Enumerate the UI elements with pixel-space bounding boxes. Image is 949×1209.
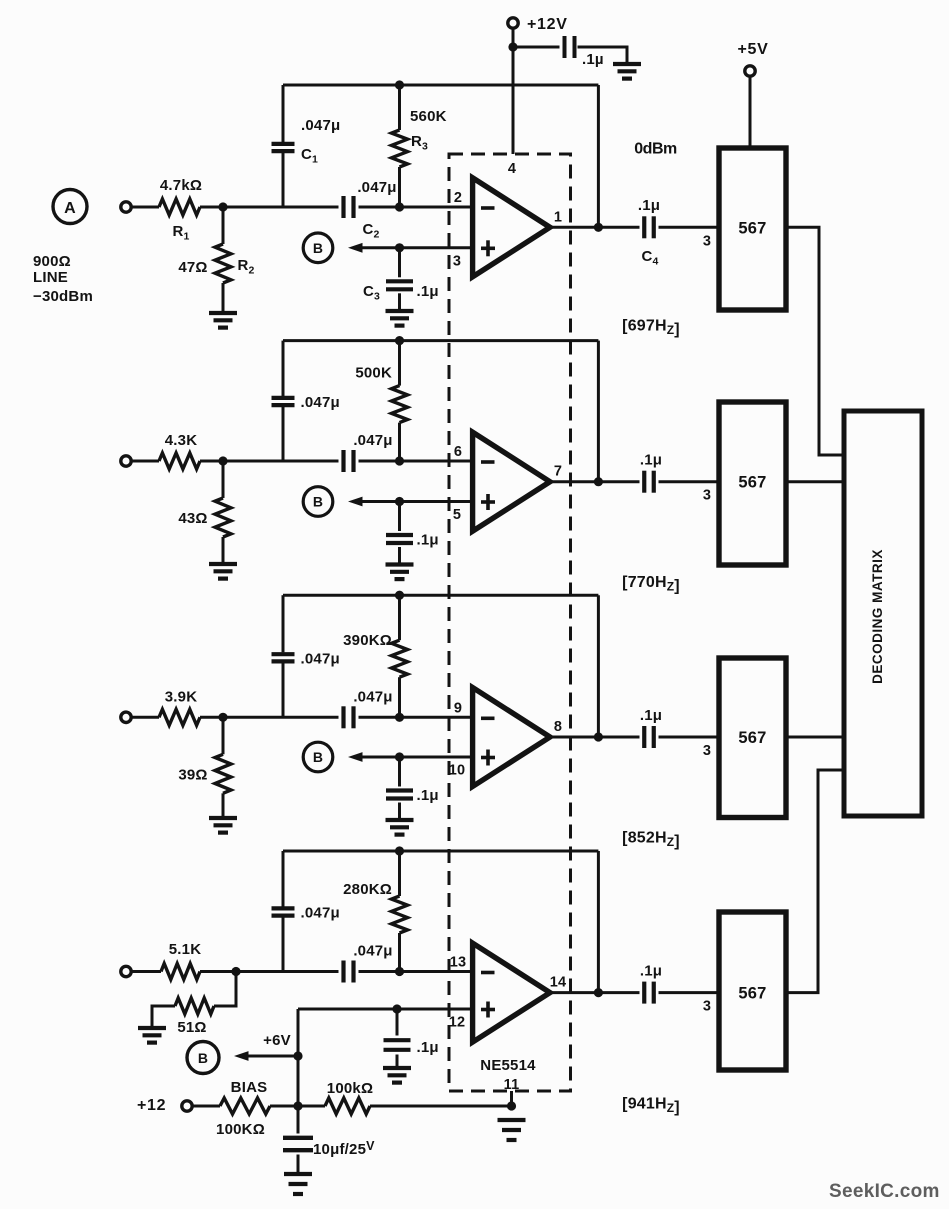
wire +6V rail vertical [297, 1009, 300, 1106]
svg-text:390KΩ: 390KΩ [343, 632, 392, 649]
svg-text:51Ω: 51Ω [177, 1019, 206, 1036]
wire U3 output to decoding matrix [786, 480, 842, 483]
svg-text:+12: +12 [137, 1097, 166, 1114]
pin 3 label U3 [703, 488, 711, 504]
node input junction channel 1 [218, 202, 227, 211]
svg-text:.1μ: .1μ [417, 532, 439, 549]
svg-text:SeekIC.com: SeekIC.com [829, 1181, 940, 1202]
svg-text:.1µ: .1µ [582, 51, 604, 68]
node B marker channel 2 [303, 487, 333, 517]
tone decoder U3 567 channel 2 [719, 402, 786, 565]
svg-text:B: B [313, 240, 323, 256]
resistor 43ohm shunt channel 2 [178, 461, 231, 564]
wire feedback top channel 3 [283, 594, 598, 597]
svg-text:13: 13 [450, 955, 467, 971]
capacitor .047µ feedback channel 2 [272, 341, 340, 461]
resistor 100kΩ bias feed [325, 1080, 373, 1114]
svg-text:.1μ: .1μ [417, 283, 439, 300]
capacitor .047µ series channel 2 [344, 432, 393, 472]
node A line input marker [53, 190, 87, 224]
svg-text:4.7kΩ: 4.7kΩ [160, 177, 202, 194]
capacitor .047µ feedback channel 4 [272, 851, 340, 972]
node feedback resistor top junction channel 4 [395, 846, 404, 855]
svg-text:567: 567 [738, 219, 766, 237]
pin 11 label [504, 1077, 520, 1093]
ground +12V bypass [613, 64, 641, 79]
svg-text:3: 3 [703, 233, 711, 249]
svg-text:567: 567 [738, 729, 766, 747]
wire arrow to node B channel 2 [348, 497, 473, 507]
wire op-amp output channel 1 [550, 226, 719, 229]
label [770Hz] frequency channel 2 [622, 574, 680, 595]
wire U4 output to decoding matrix [786, 736, 842, 739]
svg-text:.047μ: .047μ [301, 650, 340, 667]
wire +5V to tone decoder U2 [749, 76, 752, 147]
svg-text:3: 3 [453, 253, 461, 269]
power +5V terminal [737, 41, 768, 76]
svg-text:567: 567 [738, 985, 766, 1003]
pin 3 label [453, 253, 461, 269]
label [941Hz] frequency channel 4 [622, 1096, 680, 1117]
svg-text:.1μ: .1μ [417, 787, 439, 804]
wire input terminal to R channel 1 [132, 206, 160, 209]
node B marker channel 3 [303, 742, 333, 772]
label [697Hz] frequency channel 1 [622, 318, 680, 339]
wire op-amp output channel 2 [550, 480, 719, 483]
capacitor .1µ bias bypass channel 4 [384, 1009, 439, 1068]
ground bypass capacitor channel 1 [386, 311, 414, 326]
wire U2 output to decoding matrix [786, 227, 842, 455]
wire bias resistor to divider node [270, 1105, 325, 1108]
wire +6V bias to op-amp non-inverting input channel 4 [298, 1008, 473, 1011]
node shunt capacitor junction channel 2 [395, 497, 404, 506]
wire +12 terminal to bias resistor [193, 1105, 221, 1108]
node input junction channel 2 [218, 456, 227, 465]
svg-text:.047μ: .047μ [353, 688, 392, 705]
wire op-amp output channel 3 [550, 736, 719, 739]
pin 6 label [454, 444, 462, 460]
node output junction channel 4 [594, 988, 603, 997]
label [852Hz] frequency channel 3 [622, 830, 680, 851]
resistor 4.3K input channel 2 [159, 432, 200, 469]
svg-text:560K: 560K [410, 108, 447, 125]
wire R to op-amp inverting input channel 4 [200, 970, 473, 973]
svg-text:14: 14 [550, 975, 567, 991]
power +12V terminal [508, 16, 568, 33]
wire feedback top channel 2 [283, 339, 598, 342]
svg-text:9: 9 [454, 700, 462, 716]
node B marker channel 4 [187, 1042, 219, 1074]
ground input shunt channel 2 [209, 564, 237, 579]
pin 3 label U4 [703, 743, 711, 759]
svg-text:5.1K: 5.1K [169, 941, 202, 958]
svg-text:.1μ: .1μ [640, 707, 662, 724]
svg-text:47Ω: 47Ω [178, 259, 207, 276]
resistor 51 ohm channel 4 [175, 998, 214, 1036]
op-amp U1a NE5514 section 1 [473, 178, 550, 277]
svg-text:.047μ: .047μ [357, 179, 396, 196]
node feedback resistor bottom junction channel 2 [395, 456, 404, 465]
svg-text:.047μ: .047μ [301, 117, 340, 134]
ground pin 11 [498, 1120, 526, 1140]
svg-text:−30dBm: −30dBm [33, 288, 93, 305]
svg-text:.1μ: .1μ [640, 963, 662, 980]
pin 5 label [453, 507, 461, 523]
op-amp U1b NE5514 section 2 [473, 432, 550, 531]
svg-text:3: 3 [703, 743, 711, 759]
pin 12 label [449, 1015, 466, 1031]
pin 3 label U2 [703, 233, 711, 249]
pin 3 label U5 [703, 999, 711, 1015]
svg-text:.047μ: .047μ [353, 432, 392, 449]
svg-text:567: 567 [738, 474, 766, 492]
pin 8 label [554, 719, 562, 735]
resistor 5.1K input channel 4 [161, 941, 201, 980]
svg-text:0dBm: 0dBm [634, 141, 677, 158]
capacitor .1µ +12V bypass [565, 36, 604, 68]
wire junction down to 51 ohm resistor [214, 972, 236, 1007]
input terminal channel 4 [121, 966, 131, 976]
ground bypass capacitor channel 2 [386, 565, 414, 580]
wire +12V junction to bypass capacitor [513, 46, 560, 49]
svg-text:100kΩ: 100kΩ [327, 1080, 373, 1097]
svg-text:2: 2 [454, 190, 462, 206]
bias input terminal [182, 1101, 192, 1111]
svg-text:8: 8 [554, 719, 562, 735]
svg-text:11: 11 [504, 1077, 520, 1093]
capacitor .1µ output coupling channel 3 [640, 707, 662, 748]
input terminal channel 2 [121, 456, 131, 466]
node feedback resistor bottom junction channel 1 [395, 202, 404, 211]
node feedback resistor top junction channel 2 [395, 336, 404, 345]
ground input shunt channel 3 [209, 818, 237, 833]
capacitor .1µ non-inverting bypass channel 3 [386, 757, 439, 820]
svg-text:.047μ: .047μ [353, 943, 392, 960]
node feedback resistor top junction channel 1 [395, 80, 404, 89]
pin 9 label [454, 700, 462, 716]
capacitor 10µf/25V bias filter [283, 1106, 375, 1174]
node input junction channel 3 [218, 713, 227, 722]
op-amp package NE5514 dashed outline [449, 154, 571, 1091]
wire feedback top channel 4 [283, 850, 598, 853]
node feedback resistor top junction channel 3 [395, 591, 404, 600]
pin 4 label [508, 161, 516, 177]
capacitor .047µ series channel 3 [344, 688, 393, 728]
svg-text:900Ω: 900Ω [33, 253, 71, 270]
svg-text:100KΩ: 100KΩ [216, 1121, 265, 1138]
svg-text:BIAS: BIAS [231, 1079, 268, 1096]
node pin 11 ground junction [507, 1101, 516, 1110]
watermark SeekIC.com [829, 1181, 940, 1202]
svg-text:7: 7 [554, 464, 562, 480]
ground 10µf capacitor [284, 1174, 312, 1194]
svg-text:12: 12 [449, 1015, 466, 1031]
capacitor .1µ non-inverting bypass channel 2 [386, 502, 439, 565]
wire arrow to node B channel 1 [348, 243, 473, 253]
node +12V bypass junction [508, 42, 517, 51]
pin 1 label [554, 209, 562, 225]
op-amp U1c NE5514 section 3 [473, 688, 550, 787]
tone decoder U4 567 channel 3 [719, 658, 786, 818]
resistor 390Kohm feedback channel 3 [343, 595, 407, 717]
capacitor C4 .1µ output coupling channel 1 [638, 197, 660, 268]
wire 51 ohm resistor to ground [152, 1006, 175, 1028]
wire +12V rail down to NE5514 pin 4 [512, 28, 515, 154]
svg-text:500K: 500K [355, 365, 392, 382]
svg-text:1: 1 [554, 209, 562, 225]
svg-text:LINE: LINE [33, 269, 68, 286]
wire feedback vertical channel 3 [597, 595, 600, 737]
label 900Ω LINE -30dBm [33, 253, 93, 305]
svg-text:A: A [64, 200, 76, 217]
svg-text:280KΩ: 280KΩ [343, 881, 392, 898]
svg-text:+12V: +12V [527, 16, 568, 33]
resistor R2 47ohm shunt channel 1 [178, 207, 254, 313]
svg-text:39Ω: 39Ω [178, 766, 207, 783]
svg-text:6: 6 [454, 444, 462, 460]
resistor R3 560K feedback channel 1 [392, 85, 447, 207]
svg-text:.1μ: .1μ [417, 1039, 439, 1056]
svg-text:3: 3 [703, 999, 711, 1015]
wire input terminal to R channel 3 [132, 716, 160, 719]
ground 51 ohm channel 4 [138, 1028, 166, 1043]
capacitor C2 .047µ series channel 1 [344, 179, 397, 241]
svg-text:+5V: +5V [737, 41, 768, 58]
resistor 280Kohm feedback channel 4 [343, 851, 407, 972]
input terminal channel 1 [121, 202, 131, 212]
resistor BIAS 100KΩ [216, 1079, 270, 1138]
label +6V [263, 1032, 291, 1049]
resistor 500K feedback channel 2 [355, 341, 407, 461]
capacitor .047µ feedback channel 3 [272, 595, 340, 717]
resistor 3.9K input channel 3 [159, 688, 200, 725]
pin 10 label [449, 763, 466, 779]
pin 14 label [550, 975, 567, 991]
wire arrow +6V to node B [234, 1051, 298, 1061]
svg-text:B: B [198, 1050, 208, 1066]
node input junction channel 4 [231, 967, 240, 976]
wire feedback vertical channel 4 [597, 851, 600, 993]
svg-text:4: 4 [508, 161, 516, 177]
svg-text:+6V: +6V [263, 1032, 291, 1049]
label +12 bias input [137, 1097, 166, 1114]
wire input terminal to R channel 4 [132, 970, 162, 973]
node bias bypass junction channel 4 [392, 1004, 401, 1013]
svg-text:4.3K: 4.3K [165, 432, 198, 449]
tone decoder U5 567 channel 4 [719, 912, 786, 1070]
svg-text:.1μ: .1μ [638, 197, 660, 214]
svg-text:NE5514: NE5514 [480, 1057, 536, 1074]
wire R to op-amp inverting input channel 2 [200, 460, 473, 463]
svg-text:43Ω: 43Ω [178, 510, 207, 527]
node feedback resistor bottom junction channel 4 [395, 967, 404, 976]
wire 100kΩ resistor to pin 11 node [370, 1105, 512, 1108]
wire bypass capacitor to ground [578, 47, 628, 63]
svg-text:10μf/25V: 10μf/25V [313, 1139, 375, 1158]
input terminal channel 3 [121, 712, 131, 722]
node output junction channel 2 [594, 477, 603, 486]
decoding matrix block [844, 411, 922, 816]
capacitor .047µ series channel 4 [344, 943, 393, 983]
svg-text:.047μ: .047μ [301, 905, 340, 922]
ground bias bypass channel 4 [383, 1068, 411, 1083]
label NE5514 [480, 1057, 536, 1074]
resistor R1 4.7kohm input channel 1 [159, 177, 202, 243]
svg-text:DECODING MATRIX: DECODING MATRIX [870, 549, 885, 684]
ground bypass capacitor channel 3 [386, 820, 414, 835]
svg-text:.1μ: .1μ [640, 452, 662, 469]
pin 7 label [554, 464, 562, 480]
wire feedback top channel 1 [283, 84, 598, 87]
tone decoder U2 567 channel 1 [719, 148, 786, 310]
node B marker channel 1 [303, 233, 333, 263]
wire arrow to node B channel 3 [348, 752, 473, 762]
wire input terminal to R channel 2 [132, 460, 160, 463]
node +6V [293, 1051, 302, 1060]
capacitor C3 .1µ non-inverting bypass channel 1 [363, 248, 439, 311]
node bias divider junction [293, 1101, 302, 1110]
label 0dBm [634, 141, 677, 158]
svg-text:.047μ: .047μ [301, 394, 340, 411]
svg-text:B: B [313, 749, 323, 765]
ground input shunt channel 1 [209, 313, 237, 328]
node shunt capacitor junction channel 1 [395, 243, 404, 252]
wire pin 11 to ground [510, 1091, 513, 1106]
pin 13 label [450, 955, 467, 971]
capacitor C1 .047µ feedback channel 1 [272, 85, 341, 207]
resistor 39ohm shunt channel 3 [178, 717, 231, 818]
node output junction channel 1 [594, 223, 603, 232]
pin 2 label [454, 190, 462, 206]
node feedback resistor bottom junction channel 3 [395, 713, 404, 722]
svg-text:B: B [313, 494, 323, 510]
svg-text:5: 5 [453, 507, 461, 523]
wire feedback vertical channel 2 [597, 341, 600, 482]
wire op-amp output channel 4 [550, 991, 719, 994]
wire feedback vertical channel 1 [597, 85, 600, 227]
node shunt capacitor junction channel 3 [395, 752, 404, 761]
node output junction channel 3 [594, 732, 603, 741]
wire R to op-amp inverting input channel 3 [200, 716, 473, 719]
svg-text:10: 10 [449, 763, 466, 779]
op-amp U1d NE5514 section 4 [473, 943, 550, 1042]
wire U5 output to decoding matrix [786, 770, 842, 993]
svg-text:3: 3 [703, 488, 711, 504]
svg-text:3.9K: 3.9K [165, 688, 198, 705]
capacitor .1µ output coupling channel 2 [640, 452, 662, 493]
wire R to op-amp inverting input channel 1 [200, 206, 473, 209]
capacitor .1µ output coupling channel 4 [640, 963, 662, 1004]
